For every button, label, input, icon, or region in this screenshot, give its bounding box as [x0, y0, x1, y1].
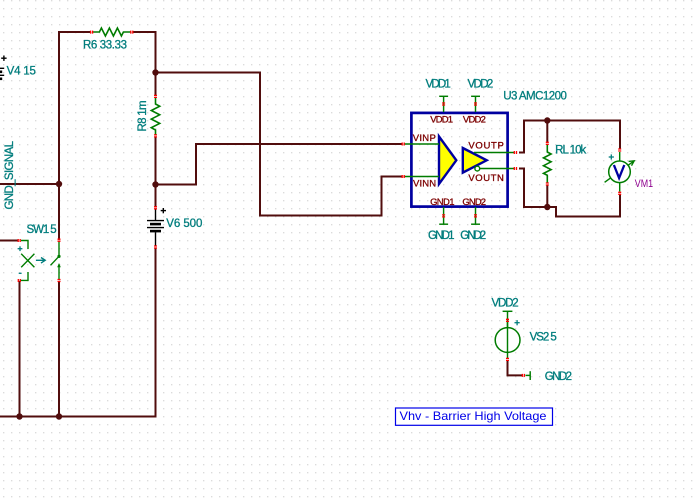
resistor RL	[544, 145, 552, 184]
voltmeter VM1 leads	[619, 152, 621, 192]
pin VINN green lead	[404, 176, 439, 178]
svg-text:VM1: VM1	[635, 178, 653, 190]
tick VDD2 pin	[474, 103, 477, 105]
svg-text:VDD2: VDD2	[463, 115, 486, 126]
tick R8 bottom	[154, 135, 157, 137]
svg-text:V4 15: V4 15	[7, 66, 36, 78]
wire R8/V6 vertical top	[155, 31, 157, 96]
switch plus sign (teal)	[18, 246, 23, 251]
pin GND2 terminal	[471, 207, 480, 224]
node RL bottom junction	[544, 204, 550, 210]
wire junction to VINN pin	[156, 73, 403, 216]
pin VINP green lead	[404, 143, 439, 145]
node bottom junction x59	[56, 413, 62, 419]
pin VOUTP green lead	[474, 152, 514, 154]
tick VOUTP	[514, 151, 516, 154]
pin VOUTN green lead	[480, 168, 514, 170]
tick GND1 pin	[442, 215, 445, 217]
switch control lead top	[21, 241, 28, 250]
wire RL bottom lead	[546, 186, 548, 208]
tick SW1 pole top	[58, 239, 61, 241]
tick SW1 control in	[18, 239, 20, 242]
svg-text:U3 AMC1200: U3 AMC1200	[503, 91, 567, 103]
wire RL top lead	[546, 121, 548, 143]
svg-text:VDD2: VDD2	[468, 79, 494, 91]
switch arrowhead	[57, 263, 61, 267]
svg-text:VS2 5: VS2 5	[530, 332, 557, 344]
switch SW1	[21, 241, 60, 281]
tick RL bottom	[546, 183, 549, 185]
svg-text:R6 33.33: R6 33.33	[83, 40, 127, 52]
node bottom junction x19	[16, 413, 22, 419]
tick VINP	[402, 143, 404, 146]
node GND_SIGNAL junction	[56, 181, 62, 187]
svg-text:GND1: GND1	[430, 197, 454, 208]
wire top horizontal left of R6	[59, 31, 90, 33]
svg-text:VDD1: VDD1	[426, 79, 451, 91]
wire junction to VINP pin	[156, 144, 403, 185]
resistor R8	[151, 97, 159, 136]
source VS2 terminal VDD2	[503, 311, 513, 328]
op-amp input stage triangle	[439, 137, 456, 185]
svg-text:GND2: GND2	[462, 197, 486, 208]
tick VINN	[402, 175, 404, 178]
wire switch control from left edge	[0, 240, 18, 242]
voltmeter VM1 plus sign (teal)	[609, 154, 614, 159]
tick VM1 top	[618, 149, 621, 151]
tick VS2 top	[506, 319, 509, 321]
wire left vertical x=59 top	[58, 31, 60, 240]
svg-text:GND1: GND1	[428, 230, 455, 242]
svg-text:RL 10k: RL 10k	[555, 144, 586, 156]
voltmeter VM1 arrow line	[605, 161, 634, 182]
wire bottom horizontal	[0, 248, 156, 417]
switch control lead bottom	[21, 272, 29, 280]
battery V6 plus sign	[161, 208, 166, 213]
svg-text:VINN: VINN	[413, 178, 436, 189]
voltmeter VM1 arrowhead	[629, 161, 635, 166]
tick V6 bottom	[154, 246, 157, 248]
wire left vertical x=59 bottom	[58, 281, 60, 417]
wire VS2 minus to GND2 terminal	[508, 361, 523, 375]
voltmeter VM1 V glyph	[614, 165, 624, 178]
source VS2 circle	[495, 328, 520, 353]
pin VDD2 terminal	[471, 96, 480, 112]
switch control X	[21, 254, 34, 267]
battery V6	[147, 210, 164, 246]
tick SW1 control out	[18, 279, 20, 282]
switch blade	[51, 256, 60, 265]
switch minus sign (teal)	[19, 272, 22, 274]
svg-text:VOUTN: VOUTN	[468, 173, 504, 184]
tick R6 right	[131, 31, 133, 34]
note box Vhv	[396, 408, 553, 425]
tick GND2 terminal	[522, 374, 524, 377]
tick VM1 bottom	[618, 192, 621, 194]
svg-text:GND2: GND2	[460, 230, 486, 242]
svg-text:VINP: VINP	[413, 133, 436, 144]
switch pivot dot	[57, 255, 60, 258]
svg-text:GND_SIGNAL: GND_SIGNAL	[4, 140, 16, 209]
source VS2 line through circle	[507, 321, 509, 359]
svg-text:GND2: GND2	[545, 371, 572, 383]
tick VOUTN	[514, 167, 516, 170]
node top junction x155	[152, 69, 158, 75]
svg-text:VOUTP: VOUTP	[468, 141, 504, 152]
terminal GND2 bar	[526, 371, 531, 380]
battery V4 (cut off at left edge)	[0, 68, 4, 79]
tick GND2 pin	[474, 215, 477, 217]
wire switch control return vertical	[19, 281, 21, 417]
source VS2 plus sign (teal)	[515, 320, 520, 325]
inversion bubble	[475, 166, 480, 171]
tick V6 top	[154, 207, 157, 209]
voltmeter VM1 circle	[609, 161, 631, 183]
svg-text:V6 500: V6 500	[166, 218, 202, 230]
node RL top junction	[544, 117, 550, 123]
pin GND1 terminal	[439, 207, 448, 224]
tick VS2 bottom	[506, 358, 509, 360]
switch arrow shaft	[58, 265, 60, 281]
resistor R6	[93, 28, 131, 36]
wire GND_SIGNAL horizontal	[0, 183, 59, 185]
op-amp box U3	[411, 113, 507, 207]
tick RL top	[546, 142, 549, 144]
svg-text:SW1 5: SW1 5	[27, 224, 57, 236]
wire VOUTP to top rail and VM1	[519, 121, 620, 153]
pin VDD1 terminal	[439, 96, 448, 112]
tick R8 top	[154, 95, 157, 97]
svg-text:VDD2: VDD2	[492, 297, 519, 309]
wire R8 bottom to junction	[155, 137, 157, 208]
op-amp output stage triangle	[463, 148, 487, 173]
tick SW1 pole bottom	[58, 280, 61, 282]
switch pole top lead	[58, 241, 60, 256]
battery V4 plus sign	[1, 56, 6, 61]
node mid junction x155	[152, 181, 158, 187]
tick R6 left	[91, 31, 93, 34]
wire top horizontal right of R6	[133, 31, 157, 33]
tick VDD1 pin	[442, 103, 445, 105]
svg-text:Vhv - Barrier High Voltage: Vhv - Barrier High Voltage	[400, 409, 547, 423]
svg-text:VDD1: VDD1	[430, 115, 453, 126]
svg-text:R8 1m: R8 1m	[137, 100, 149, 131]
wire VOUTN to bottom rail and VM1	[519, 169, 620, 217]
switch drive arrow (teal)	[36, 258, 45, 264]
